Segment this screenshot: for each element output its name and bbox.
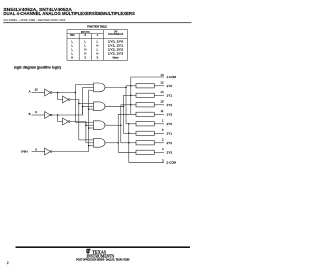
wire stub G2 input INHbar [89,108,94,110]
wire stub G2 input Bbar [83,105,94,107]
wire G1 output [105,86,126,88]
svg-text:11: 11 [161,109,164,113]
inverter U1B (buffered A) [63,96,69,103]
table row 5 [71,55,119,59]
wire input INH [32,151,45,153]
wire bus B vertical [85,122,87,143]
junction node A bus G2 [78,103,80,105]
wire row feed 1Y2 [121,104,136,106]
wire row feed 1Y0 [126,85,136,87]
wire control vertical G4 [117,114,119,152]
wire row feed 2Y2 [121,142,136,144]
svg-text:logic diagram (positive logic): logic diagram (positive logic) [14,66,61,70]
wire row feed 1Y3 [118,113,136,115]
svg-text:12: 12 [160,81,164,85]
and gate G4 [94,138,106,147]
junction node Bbar bus G2 [82,106,84,108]
analog switch SW2 (1Y1) [136,93,154,97]
svg-text:2Y2: 2Y2 [167,141,173,145]
svg-text:13: 13 [160,73,164,77]
wire inverter U2A output to bus Bbar [52,106,83,115]
junction G3 out [120,124,122,126]
svg-text:CHANNELS: CHANNELS [108,33,124,36]
wire stub G3 input Abar [75,121,93,123]
svg-text:1Y1, 2Y1: 1Y1, 2Y1 [108,45,124,48]
svg-text:15: 15 [160,100,164,104]
wire row feed 2Y3 [118,151,136,153]
svg-text:1Y2: 1Y2 [167,103,173,107]
svg-text:2Y3: 2Y3 [167,150,173,154]
svg-text:INH: INH [70,35,75,37]
svg-text:1Y0: 1Y0 [167,84,173,88]
svg-text:H: H [96,51,98,55]
svg-text:H: H [96,44,98,48]
wire bus Bbar vertical [82,87,84,115]
svg-text:DUAL 4-CHANNEL ANALOG MULTIPLE: DUAL 4-CHANNEL ANALOG MULTIPLEXERS/DEMUL… [3,11,135,16]
header rule [3,22,191,23]
wire stub G3 input INHbar [89,127,94,129]
wire node Abar drop to U1B [58,93,63,100]
TI logo bug [86,249,90,254]
wire out 1Y1 [154,94,164,96]
junction 1-COM bus 1Y2 [130,104,132,106]
wire bus A vertical [78,100,80,140]
junction G1 out [125,87,127,89]
wire node Bbar drop to U2B [58,115,63,122]
junction 2-COM bus 2Y0 [128,123,130,125]
analog switch SW8 (2Y3) [136,150,154,154]
svg-text:INH: INH [21,149,28,153]
wire out 1Y2 [154,104,164,106]
wire G3 output [105,124,121,126]
table row 4 [71,51,124,55]
svg-text:10: 10 [35,87,39,91]
wire stub G4 input B [86,142,94,144]
analog switch SW1 (1Y0) [136,84,154,88]
table row 1 [71,40,124,44]
svg-text:1Y2, 2Y2: 1Y2, 2Y2 [108,49,124,52]
wire inverter U2B output to bus B [70,122,86,126]
and gate G3 [94,121,106,130]
junction node INHbar G4 [88,145,90,147]
analog switch SW6 (2Y1) [136,131,154,135]
table divider INH/B [78,34,80,61]
analog switch SW4 (1Y3) [136,112,154,116]
svg-text:14: 14 [160,90,164,94]
table row 2 [71,44,124,48]
svg-text:SCLS399G – APRIL 1998 – REVISE: SCLS399G – APRIL 1998 – REVISED APRIL 20… [3,18,66,22]
wire out 1Y0 [154,85,164,87]
wire input A [32,92,45,94]
wire stub G1 input INHbar [89,89,94,91]
inverter U3 (INH) [45,148,51,155]
inverter U2B (buffered B) [63,118,69,125]
wire out 2Y2 [154,142,164,144]
junction 2-COM bus 2Y2 [128,142,130,144]
wire out 2Y1 [154,132,164,134]
footer rule [16,246,191,248]
wire control vertical G1 [125,86,127,124]
and gate G1 [94,83,106,92]
wire stub G1 input Bbar [83,86,94,88]
svg-text:1Y1: 1Y1 [167,93,173,97]
wire control vertical G2 [122,95,124,133]
analog switch SW5 (2Y0) [136,122,154,126]
svg-text:2Y0: 2Y0 [167,122,173,126]
wire row feed 2Y0 [126,123,136,125]
table line under header row [67,38,128,40]
junction node B bus G3 [85,124,87,126]
svg-text:POST OFFICE BOX 655303 • DALLA: POST OFFICE BOX 655303 • DALLAS, TEXAS 7… [76,259,130,262]
junction node Abar bus [75,92,77,94]
analog switch SW3 (1Y2) [136,103,154,107]
wire inverter U1B output to bus A [70,100,79,104]
svg-text:H: H [84,51,86,55]
wire out 2Y0 [154,123,164,125]
junction 1-COM bus 1Y0 [130,85,132,87]
svg-text:H: H [84,48,86,52]
wire row feed 2Y1 [123,132,136,134]
wire 2-COM line [129,124,164,163]
svg-text:2-COM: 2-COM [167,160,177,164]
wire inverter U3 output to bus INHbar [52,90,89,151]
junction node INHbar G2 [88,108,90,110]
svg-text:1Y0, 2Y0: 1Y0, 2Y0 [108,41,124,44]
svg-text:1-COM: 1-COM [167,75,177,79]
junction node Bbar [57,114,59,116]
junction G4 out [117,142,119,144]
wire G4 output [105,142,118,144]
svg-text:FUNCTION TABLE: FUNCTION TABLE [87,25,107,29]
and gate G2 [94,102,106,111]
junction 1-COM bus 1Y1 [130,95,132,97]
wire row feed 1Y1 [123,94,136,96]
table row 3 [71,48,124,52]
wire stub G1 input Abar [75,84,93,86]
wire input B [32,114,45,116]
table divider B/A [90,34,92,61]
table outer box [67,30,128,61]
junction 2-COM bus 2Y1 [128,133,130,135]
junction G2 out [123,106,125,108]
svg-text:B: B [29,112,31,116]
wire out 1Y3 [154,113,164,115]
wire 1-COM line [131,77,164,114]
wire bus Abar vertical [74,85,76,123]
inverter U1A (input A) [45,89,51,96]
wire out 2Y3 [154,151,164,153]
svg-text:A: A [29,89,31,93]
inverter U2A (input B) [45,112,51,119]
svg-text:1Y3, 2Y3: 1Y3, 2Y3 [108,52,124,55]
junction node INHbar G3 [88,127,90,129]
junction node Abar [57,92,59,94]
svg-text:None: None [113,56,120,59]
table line under INPUTS [67,33,104,35]
svg-text:INPUTS: INPUTS [81,31,90,34]
svg-text:INSTRUMENTS: INSTRUMENTS [87,254,115,259]
wire stub G2 input A [79,103,94,105]
wire G2 output [105,105,123,107]
analog switch SW7 (2Y2) [136,141,154,145]
table divider inputs/on-channels [103,30,105,61]
wire stub G4 input A [79,139,94,141]
wire stub G3 input B [86,124,94,126]
wire inverter U1A output [52,92,76,94]
svg-text:1Y3: 1Y3 [167,112,173,116]
svg-text:X: X [84,55,86,59]
svg-text:2: 2 [7,261,9,265]
wire control vertical G3 [120,105,122,143]
svg-text:H: H [71,55,73,59]
wire stub G4 input INHbar [89,145,94,147]
svg-text:2Y1: 2Y1 [167,131,173,135]
svg-text:X: X [97,55,99,59]
